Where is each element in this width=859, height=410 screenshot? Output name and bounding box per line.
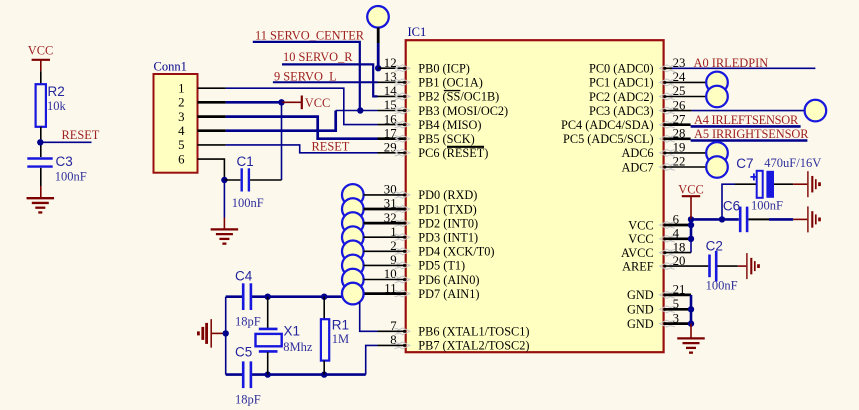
pin arrow bbox=[660, 249, 675, 256]
pin stub PD0 (RXD) bbox=[364, 194, 406, 196]
wire Conn1-1 (MISO) to PB4 bbox=[226, 88, 378, 124]
svg-text:PD7 (AIN1): PD7 (AIN1) bbox=[418, 287, 479, 301]
svg-text:PB2 (SS/OC1B): PB2 (SS/OC1B) bbox=[418, 90, 499, 104]
wire top rail right (XTAL1 net) bbox=[252, 295, 344, 298]
pad circle (XTAL1 node) bbox=[342, 283, 364, 305]
pad circle PD7 (pin 11) bbox=[342, 283, 364, 305]
svg-text:C5: C5 bbox=[235, 344, 252, 359]
svg-text:3: 3 bbox=[178, 110, 184, 124]
pin stub PB5 bbox=[378, 137, 406, 140]
svg-text:1M: 1M bbox=[332, 332, 349, 346]
pin stub PC6 bbox=[378, 152, 406, 154]
ground (C7, sideways) bbox=[808, 171, 820, 197]
junction node X1 top bbox=[265, 294, 271, 300]
svg-text:100nF: 100nF bbox=[706, 279, 738, 293]
svg-text:18pF: 18pF bbox=[235, 315, 261, 329]
ground pin (C2) bbox=[738, 265, 746, 267]
wire AVCC riser bbox=[690, 239, 692, 253]
wire rail to X1 top bbox=[267, 297, 269, 329]
svg-text:A0 IRLEDPIN: A0 IRLEDPIN bbox=[694, 56, 769, 70]
wire pad to PB6 bbox=[360, 302, 378, 331]
svg-text:R2: R2 bbox=[48, 84, 65, 99]
pad circle PD3 (pin 1) bbox=[342, 226, 364, 248]
wire Conn1-5 RESET to PC6 bbox=[226, 145, 378, 153]
svg-text:C6: C6 bbox=[723, 198, 740, 213]
junction node C7 branch bbox=[719, 216, 725, 222]
capacitor C5 bbox=[243, 361, 251, 388]
svg-text:PD4 (XCK/T0): PD4 (XCK/T0) bbox=[418, 245, 494, 259]
ground (below C1) bbox=[211, 229, 239, 243]
pin stub PB2 bbox=[378, 95, 406, 97]
pin arrow bbox=[395, 79, 410, 86]
svg-text:PC3 (ADC3): PC3 (ADC3) bbox=[589, 104, 654, 118]
pin stub VCC pin6 bbox=[664, 224, 691, 227]
svg-text:2: 2 bbox=[178, 96, 184, 110]
junction node pin4 bbox=[688, 236, 694, 242]
pin arrow bbox=[395, 93, 410, 100]
pin arrow bbox=[660, 79, 675, 86]
pin stub PC5 bbox=[664, 137, 691, 140]
ground (crystal, sideways) bbox=[198, 319, 211, 348]
pin stub PB1 bbox=[378, 81, 406, 83]
pad circle PD6 (pin 10) bbox=[342, 269, 364, 291]
svg-text:100nF: 100nF bbox=[232, 196, 264, 210]
junction node VCC (conn) bbox=[278, 99, 284, 105]
VCC symbol pin bbox=[40, 60, 42, 71]
pin stub PC4 bbox=[664, 123, 691, 126]
svg-text:X1: X1 bbox=[284, 323, 301, 338]
pin stub PC0 bbox=[664, 67, 672, 69]
VCC supply symbol (IC) bbox=[682, 195, 700, 197]
pin stub PD6 (AIN0) bbox=[364, 279, 406, 281]
svg-text:AREF: AREF bbox=[622, 259, 654, 273]
IC U1 body (IC1 ATmega) bbox=[406, 40, 664, 352]
wire C4-C5 left rail bbox=[225, 297, 227, 375]
wire C1 right plate to VCC riser bbox=[250, 179, 281, 181]
capacitor C7 (polarized) bbox=[750, 171, 774, 198]
pin arrow bbox=[395, 65, 410, 72]
pad circle (ADC7) bbox=[706, 156, 728, 178]
junction node RESET bbox=[37, 139, 43, 145]
svg-text:RESET: RESET bbox=[312, 140, 350, 154]
svg-text:R1: R1 bbox=[332, 317, 349, 332]
pin arrow bbox=[395, 248, 410, 255]
pin arrow bbox=[395, 149, 410, 156]
pin arrow bbox=[660, 135, 675, 142]
wire A4 IRLEFTSENSOR bbox=[691, 125, 801, 128]
svg-text:4: 4 bbox=[178, 124, 185, 138]
wire A5 IRRIGHTSENSOR bbox=[691, 139, 808, 142]
pin stub PD7 (AIN1) bbox=[364, 292, 406, 295]
pad circle PD5 (pin 9) bbox=[342, 255, 364, 277]
pin arrow bbox=[660, 292, 675, 299]
pin arrow bbox=[660, 65, 675, 72]
pin stub PB7 bbox=[378, 344, 406, 346]
svg-text:PB0 (ICP): PB0 (ICP) bbox=[418, 62, 470, 76]
ground pin (C7) bbox=[793, 183, 807, 185]
svg-text:29: 29 bbox=[384, 141, 397, 155]
pin arrow bbox=[660, 235, 675, 242]
svg-text:PC5 (ADC5/SCL): PC5 (ADC5/SCL) bbox=[563, 132, 654, 146]
pin arrow bbox=[395, 220, 410, 227]
pad circle PD0 (pin 30) bbox=[342, 184, 364, 206]
wire R2 to C3 bbox=[40, 127, 42, 157]
svg-text:VCC: VCC bbox=[628, 232, 653, 246]
pin arrow bbox=[395, 328, 410, 335]
pin stub GND pin 21 bbox=[664, 294, 691, 297]
svg-text:PC4 (ADC4/SDA): PC4 (ADC4/SDA) bbox=[561, 118, 654, 132]
pad circle PD4 (pin 2) bbox=[342, 241, 364, 263]
pin arrow bbox=[660, 222, 675, 229]
pad circle (ADC6) bbox=[706, 142, 728, 164]
wire Conn1-4 (MOSI) to PB3 bbox=[198, 129, 226, 132]
wire to C7 bbox=[722, 184, 735, 219]
pin arrow bbox=[395, 206, 410, 213]
svg-text:5: 5 bbox=[178, 138, 184, 152]
wire C2 to ground bbox=[717, 265, 737, 267]
svg-text:470uF/16V: 470uF/16V bbox=[764, 156, 821, 170]
wire to C1 left plate bbox=[224, 179, 240, 181]
svg-text:12: 12 bbox=[384, 56, 397, 70]
overline SS (PB2) bbox=[444, 90, 461, 92]
pin stub AREF bbox=[664, 265, 709, 267]
pin arrow bbox=[660, 263, 675, 270]
svg-text:11 SERVO_CENTER: 11 SERVO_CENTER bbox=[255, 29, 365, 43]
wire bottom rail left bbox=[226, 373, 242, 376]
pin stub PC3 bbox=[664, 110, 692, 112]
pin stub C7 bbox=[735, 183, 757, 185]
svg-text:GND: GND bbox=[627, 303, 654, 317]
pin arrow bbox=[660, 164, 675, 171]
svg-text:PD6 (AIN0): PD6 (AIN0) bbox=[418, 273, 479, 287]
svg-text:10 SERVO_R: 10 SERVO_R bbox=[283, 50, 353, 64]
VCC symbol pin (conn) bbox=[282, 101, 302, 103]
wire SERVO_L bbox=[273, 81, 378, 83]
pin arrow bbox=[395, 276, 410, 283]
svg-text:PD1 (TXD): PD1 (TXD) bbox=[418, 202, 476, 216]
svg-text:VCC: VCC bbox=[628, 218, 653, 232]
svg-text:6: 6 bbox=[178, 152, 185, 166]
VCC supply symbol (conn) bbox=[301, 96, 303, 110]
ground (C6, sideways) bbox=[808, 206, 820, 232]
pin arrow bbox=[660, 93, 675, 100]
wire Conn1-3 (SCK) to PB5 bbox=[198, 115, 226, 118]
svg-text:Conn1: Conn1 bbox=[154, 59, 187, 73]
capacitor C1 bbox=[242, 168, 249, 191]
svg-text:ADC7: ADC7 bbox=[621, 160, 653, 174]
svg-text:17: 17 bbox=[384, 126, 397, 140]
wire VCC to R2 bbox=[40, 71, 42, 84]
wire SERVO_R bbox=[282, 64, 378, 96]
svg-text:A4 IRLEFTSENSOR: A4 IRLEFTSENSOR bbox=[694, 113, 799, 127]
pin arrow bbox=[660, 121, 675, 128]
wire Conn1-2 VCC segment bbox=[198, 101, 226, 104]
svg-text:C1: C1 bbox=[237, 154, 254, 169]
VCC symbol pin (IC) bbox=[690, 196, 692, 219]
wire X1 bottom to rail bbox=[267, 352, 269, 375]
wire A0 IRLEDPIN bbox=[672, 67, 815, 69]
junction node X1 bottom bbox=[265, 371, 271, 377]
svg-text:16: 16 bbox=[384, 112, 397, 126]
wire Conn1-6 GND to C1 bbox=[198, 159, 225, 179]
svg-text:C2: C2 bbox=[706, 238, 723, 253]
svg-text:C3: C3 bbox=[56, 154, 73, 169]
svg-text:14: 14 bbox=[384, 84, 397, 98]
pin stub PD5 (T1) bbox=[364, 264, 406, 266]
svg-text:100nF: 100nF bbox=[55, 169, 87, 183]
pin arrow bbox=[395, 107, 410, 114]
svg-text:VCC: VCC bbox=[305, 96, 330, 110]
svg-text:PC2 (ADC2): PC2 (ADC2) bbox=[589, 90, 654, 104]
svg-text:PB7 (XTAL2/TOSC2): PB7 (XTAL2/TOSC2) bbox=[418, 339, 529, 353]
wire RESET stub bbox=[40, 141, 91, 143]
junction node crystal ground bbox=[223, 330, 229, 336]
pin stub PD1 (TXD) bbox=[364, 208, 406, 211]
svg-text:IC1: IC1 bbox=[408, 25, 427, 39]
crystal X1 bbox=[256, 329, 282, 352]
pin stub PB4 bbox=[378, 124, 406, 126]
svg-text:VCC: VCC bbox=[678, 183, 703, 197]
wire C1 node to ground bbox=[223, 180, 225, 218]
pin stub VCC pin4 bbox=[664, 237, 691, 240]
wire top rail left bbox=[226, 295, 242, 298]
wire C6 right stub bbox=[748, 218, 769, 220]
pin arrow bbox=[395, 192, 410, 199]
ground pin (C1) bbox=[223, 218, 225, 229]
wire pad to PB0 bbox=[377, 28, 380, 44]
pad circle (PC2) bbox=[706, 86, 728, 108]
wire SERVO_CENTER bbox=[253, 42, 360, 111]
pin stub PB0 bbox=[378, 67, 405, 69]
svg-text:PD5 (T1): PD5 (T1) bbox=[418, 259, 465, 273]
wire rail to R1 top bbox=[323, 297, 325, 320]
svg-text:C4: C4 bbox=[235, 268, 253, 283]
svg-text:PB3 (MOSI/OC2): PB3 (MOSI/OC2) bbox=[418, 104, 508, 118]
pin arrow bbox=[660, 107, 675, 114]
pin arrow bbox=[660, 320, 675, 327]
svg-text:1: 1 bbox=[178, 82, 184, 96]
pin stub AVCC bbox=[664, 252, 691, 254]
wire XTAL2 to PB7 bbox=[366, 345, 378, 374]
pin arrow bbox=[395, 290, 410, 297]
overline RESET (PC6) bbox=[447, 146, 484, 148]
wire to PB3 pin bbox=[336, 110, 378, 112]
pin stub ADC7 bbox=[664, 166, 706, 168]
ground (below C3) bbox=[27, 198, 55, 212]
svg-text:8Mhz: 8Mhz bbox=[283, 340, 313, 354]
pin arrow bbox=[395, 135, 410, 142]
svg-text:PC6 (RESET): PC6 (RESET) bbox=[418, 146, 488, 160]
wire VCC rail to C6 bbox=[691, 218, 739, 221]
pin stub GND pin 5 bbox=[664, 308, 691, 311]
svg-text:A5 IRRIGHTSENSOR: A5 IRRIGHTSENSOR bbox=[694, 127, 809, 141]
pin stub PB6 bbox=[378, 330, 406, 332]
pin arrow bbox=[660, 306, 675, 313]
pin stub PD3 (INT1) bbox=[364, 236, 406, 238]
pin stub PB3 bbox=[378, 110, 406, 112]
wire R1 bottom to rail bbox=[323, 361, 325, 375]
pin arrow bbox=[395, 121, 410, 128]
svg-text:PB6 (XTAL1/TOSC1): PB6 (XTAL1/TOSC1) bbox=[418, 325, 529, 339]
pin stub PC2 bbox=[664, 96, 706, 98]
wire C6 to ground bbox=[769, 218, 793, 221]
pad circle (PC3) bbox=[805, 100, 827, 122]
ground pin (crystal) bbox=[211, 332, 226, 334]
pad circle (PC1) bbox=[706, 72, 728, 94]
svg-text:PC1 (ADC1): PC1 (ADC1) bbox=[589, 76, 654, 90]
wire GND riser bbox=[690, 295, 693, 324]
wire PC3 to pad bbox=[692, 110, 805, 112]
svg-text:PB4 (MISO): PB4 (MISO) bbox=[418, 118, 481, 132]
svg-text:13: 13 bbox=[384, 70, 397, 84]
svg-text:PD2 (INT0): PD2 (INT0) bbox=[418, 216, 478, 230]
pin stub PD2 (INT0) bbox=[364, 222, 406, 225]
svg-text:RESET: RESET bbox=[62, 128, 100, 142]
junction node R1 top bbox=[321, 294, 327, 300]
svg-text:GND: GND bbox=[627, 288, 654, 302]
ground (IC GND pins) bbox=[677, 338, 705, 352]
capacitor C4 bbox=[243, 283, 251, 310]
svg-text:100nF: 100nF bbox=[751, 198, 783, 212]
junction node R1 bottom bbox=[321, 371, 327, 377]
VCC supply symbol (left) bbox=[32, 59, 50, 61]
pad circle PD1 (pin 31) bbox=[342, 198, 364, 220]
junction node PB0 bbox=[375, 65, 381, 71]
pin stub GND pin 3 bbox=[664, 322, 691, 325]
svg-text:PD0 (RXD): PD0 (RXD) bbox=[418, 188, 477, 202]
junction node GND (C1) bbox=[221, 177, 227, 183]
svg-text:PD3 (INT1): PD3 (INT1) bbox=[418, 231, 478, 245]
svg-text:VCC: VCC bbox=[28, 44, 53, 58]
capacitor C6 bbox=[740, 207, 747, 233]
pin arrow bbox=[660, 150, 675, 157]
svg-text:C7: C7 bbox=[736, 156, 753, 171]
junction node VCC rail bbox=[688, 216, 694, 222]
pin arrow bbox=[395, 234, 410, 241]
svg-text:PB5 (SCK): PB5 (SCK) bbox=[418, 132, 474, 146]
resistor R1 bbox=[321, 319, 329, 360]
svg-text:AVCC: AVCC bbox=[621, 246, 654, 260]
pin stub PC1 bbox=[664, 81, 706, 83]
resistor R2 bbox=[36, 84, 46, 127]
junction node GND pin3 bbox=[688, 320, 694, 326]
svg-text:18pF: 18pF bbox=[235, 393, 261, 407]
junction node pin6 bbox=[688, 222, 694, 228]
svg-text:PB1 (OC1A): PB1 (OC1A) bbox=[418, 76, 483, 90]
svg-text:15: 15 bbox=[384, 98, 397, 112]
capacitor C2 bbox=[710, 251, 717, 282]
pad circle (PB0 net) bbox=[367, 6, 389, 28]
capacitor C3 bbox=[27, 159, 52, 167]
pin arrow bbox=[395, 262, 410, 269]
connector Conn1 body bbox=[154, 74, 198, 173]
ground pin (C6) bbox=[793, 218, 807, 220]
junction node SERVO_CENTER/MOSI bbox=[357, 107, 363, 113]
pin stub Conn1-1 bbox=[198, 87, 226, 89]
pad circle PD2 (pin 32) bbox=[342, 212, 364, 234]
ground pin (IC) bbox=[690, 324, 692, 338]
pin stub ADC6 bbox=[664, 152, 706, 154]
pin stub PD4 (XCK/T0) bbox=[364, 250, 406, 252]
wire C7 to ground bbox=[774, 183, 793, 185]
ground pin bbox=[40, 186, 42, 198]
wire VCC junction down to C1 bbox=[281, 102, 283, 180]
wire pad stem lower bbox=[377, 43, 380, 68]
pin arrow bbox=[395, 342, 410, 349]
svg-text:ADC6: ADC6 bbox=[621, 146, 653, 160]
junction node GND pin5 bbox=[688, 306, 694, 312]
ground (C2, sideways) bbox=[747, 253, 759, 279]
svg-text:10k: 10k bbox=[47, 99, 67, 113]
wire bottom rail right (XTAL2 net) bbox=[252, 373, 366, 376]
pin stub Conn1-5 bbox=[198, 144, 226, 146]
svg-text:GND: GND bbox=[627, 317, 654, 331]
wire VCC riser bbox=[690, 219, 693, 238]
wire C3 to ground bbox=[40, 168, 42, 186]
svg-text:PC0 (ADC0): PC0 (ADC0) bbox=[589, 62, 654, 76]
